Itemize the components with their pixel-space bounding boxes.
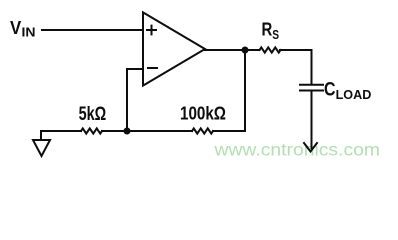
svg-text:100kΩ: 100kΩ: [180, 103, 226, 124]
svg-text:LOAD: LOAD: [336, 87, 372, 102]
svg-text:www.cntronics.com: www.cntronics.com: [213, 140, 380, 160]
svg-text:IN: IN: [22, 25, 36, 39]
svg-text:C: C: [324, 80, 336, 101]
svg-text:S: S: [272, 27, 279, 42]
svg-text:R: R: [262, 20, 273, 40]
svg-text:V: V: [10, 18, 21, 38]
svg-text:5kΩ: 5kΩ: [79, 104, 107, 125]
